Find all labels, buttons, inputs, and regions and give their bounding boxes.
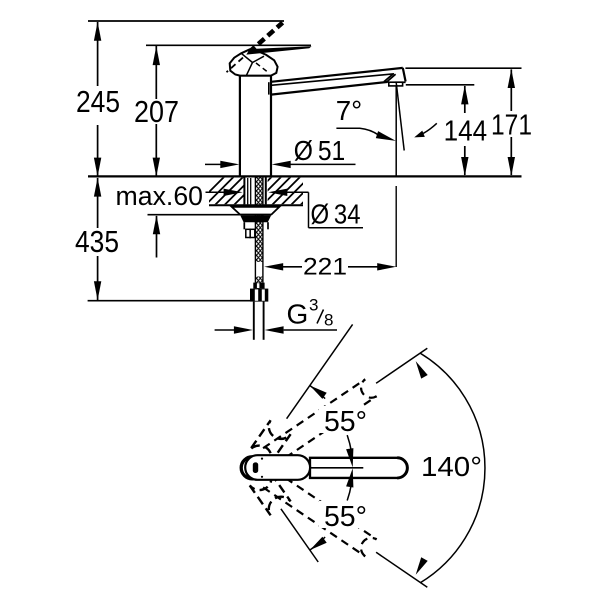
svg-text:207: 207	[134, 94, 179, 129]
svg-text:140°: 140°	[421, 451, 482, 482]
svg-text:8: 8	[324, 311, 333, 330]
svg-text:435: 435	[75, 224, 119, 259]
svg-text:G: G	[287, 298, 309, 329]
svg-text:144: 144	[444, 116, 488, 148]
svg-text:245: 245	[76, 84, 120, 119]
svg-text:Ø 34: Ø 34	[311, 199, 361, 230]
svg-text:Ø 51: Ø 51	[294, 135, 346, 166]
svg-text:55°: 55°	[324, 406, 367, 438]
svg-text:3: 3	[309, 296, 318, 315]
svg-text:7°: 7°	[336, 95, 363, 126]
svg-text:55°: 55°	[324, 501, 367, 533]
svg-text:171: 171	[491, 110, 532, 142]
svg-text:221: 221	[303, 254, 347, 281]
svg-text:max.60: max.60	[116, 181, 204, 211]
